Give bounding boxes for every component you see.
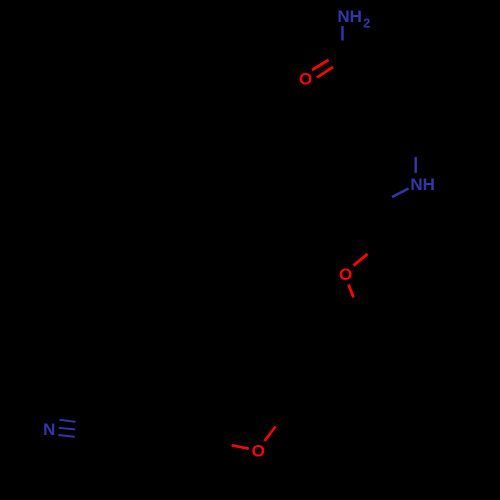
wire C=O double bond red half line 2 <box>317 67 333 78</box>
svg-text:O: O <box>339 265 352 284</box>
wire C#N triple bond blue half line 1 <box>60 420 76 422</box>
wire O-C red half down <box>349 285 354 298</box>
svg-text:2: 2 <box>363 16 370 31</box>
svg-text:NH: NH <box>410 175 435 194</box>
amide N label NH2 <box>337 7 370 31</box>
wire C-O red half left stub <box>232 445 249 448</box>
svg-text:O: O <box>252 441 265 460</box>
wire O-C red half up-right <box>265 427 276 442</box>
wire C#N triple bond blue half line 3 <box>58 435 74 437</box>
wire O-C red half up-right <box>354 254 368 266</box>
wire C#N triple bond blue half line 2 <box>59 428 75 430</box>
svg-text:N: N <box>43 420 55 439</box>
wire C=O double bond red half line 1 <box>312 60 329 70</box>
svg-text:NH: NH <box>337 7 362 26</box>
wire N-C(=O) blue half <box>341 26 343 41</box>
svg-text:O: O <box>299 70 312 89</box>
wire N-C blue half below-left of NH <box>392 189 409 198</box>
wire C-N blue half above NH <box>415 157 417 173</box>
